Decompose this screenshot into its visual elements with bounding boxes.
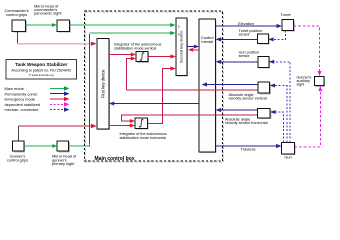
svg-text:sensor: sensor	[239, 33, 251, 37]
wire blue dashed gun to absolute vertical sensor	[270, 84, 287, 143]
wire crimson gunner emergency to first key device	[18, 124, 97, 129]
svg-text:sight: sight	[297, 83, 305, 87]
legend row main mode	[5, 86, 70, 91]
svg-text:sensor: sensor	[239, 54, 251, 58]
label mirror head of gunners primary sight	[52, 154, 77, 167]
absolute angle velocity sensor horizontal box	[258, 109, 272, 120]
commanders control grips box	[12, 20, 27, 33]
svg-text:According to patent no. RU 252: According to patent no. RU 2524042	[11, 69, 71, 73]
gunners control grips box	[13, 141, 25, 153]
label turret position sensor	[239, 29, 262, 37]
first key device U1	[97, 39, 110, 131]
gunners mirror head box	[57, 141, 70, 153]
svg-text:Turret: Turret	[280, 12, 291, 17]
legend row dependent stabilized	[5, 102, 70, 107]
svg-text:velocity sensor vertical: velocity sensor vertical	[229, 96, 267, 100]
svg-text:First key device: First key device	[100, 69, 105, 98]
integrator U5 horizontal	[135, 118, 149, 130]
svg-text:control grips: control grips	[6, 12, 27, 17]
wire navy control box to first key device	[109, 102, 199, 106]
wire crimson first key to integrator horizontal pin2	[109, 124, 135, 128]
wire navy turret position sensor to control box	[216, 37, 258, 41]
control box U3	[199, 19, 217, 153]
label gunners auxiliary sight	[297, 76, 312, 87]
svg-text:mechan. connected: mechan. connected	[5, 107, 39, 112]
turret position sensor box	[258, 34, 270, 45]
wire green commander mirror head to second key device pin 1	[70, 23, 176, 27]
svg-text:panoramic sight: panoramic sight	[34, 11, 62, 16]
wire blue dashed turret to turret position sensor	[268, 31, 285, 42]
label commanders control grips	[4, 8, 28, 17]
wire pink commander emergency to first key device	[18, 42, 97, 46]
svg-text:stabilization mode vertical: stabilization mode vertical	[114, 46, 156, 50]
wire crimson absolute horizontal sensor to integrator horizontal pin1	[122, 115, 258, 123]
wire gunner grips rise (mechanical)	[17, 126, 19, 141]
legend row permanently const	[5, 91, 70, 96]
wire crimson integrator horizontal output to second key device	[148, 66, 176, 123]
svg-text:primary sight: primary sight	[52, 161, 75, 166]
svg-text:2: 2	[178, 32, 180, 36]
gun box	[282, 142, 296, 155]
svg-text:Permanently const.: Permanently const.	[5, 91, 38, 96]
svg-text:Elevation: Elevation	[238, 21, 254, 26]
main control box dashed border	[85, 11, 224, 162]
svg-text:mental: mental	[201, 39, 213, 44]
label mirror head of commanders panoramic sight	[34, 3, 62, 15]
svg-text:Traverse: Traverse	[241, 147, 256, 152]
svg-text:1: 1	[178, 24, 180, 28]
turret box	[282, 19, 295, 31]
wire navy absolute horizontal sensor to control box	[216, 108, 258, 112]
label integrator autonomous stabilization mode horizontal	[120, 132, 168, 140]
svg-text:Main control box: Main control box	[95, 156, 135, 162]
wire blue dashed gun to absolute horizontal sensor	[270, 110, 283, 142]
label absolute angle velocity sensor horizontal	[225, 117, 268, 124]
svg-text:© www.InventA.org: © www.InventA.org	[29, 73, 54, 77]
wire green gunner mirror head to second key device pin 2	[69, 31, 176, 147]
svg-text:control grips: control grips	[7, 157, 28, 162]
label absolute angle velocity sensor vertical	[229, 93, 267, 100]
svg-text:stabilization mode horizontal: stabilization mode horizontal	[120, 136, 167, 140]
label gunners control grips	[7, 154, 28, 163]
wire magenta dashed gun to gunners auxiliary sight	[295, 86, 323, 147]
wire navy absolute vertical sensor to control box	[202, 82, 259, 86]
integrator U4 vertical	[136, 52, 149, 63]
absolute angle velocity sensor vertical box	[258, 82, 271, 95]
pin 2 second key device	[178, 32, 180, 36]
label gun	[284, 155, 291, 160]
svg-text:Main mode: Main mode	[5, 86, 24, 91]
wire crimson riser sensor-vertical to integrator vertical pin2	[127, 57, 137, 91]
wire crimson first key to integrator vertical pin1	[109, 53, 136, 57]
label turret	[280, 12, 291, 17]
svg-text:Tank Weapon Stabilizer: Tank Weapon Stabilizer	[15, 62, 67, 67]
wire commander grips drop (mechanical)	[17, 31, 19, 43]
wire navy traverse control box to gun	[216, 144, 282, 152]
wire green commander grips to mirror head	[26, 23, 57, 27]
wire crimson integrator vertical output to second key device	[148, 54, 176, 58]
svg-text:dependent stabilized: dependent stabilized	[5, 102, 41, 107]
svg-text:Gun: Gun	[284, 155, 291, 160]
title box	[6, 60, 77, 80]
wire navy gun position sensor to control box	[216, 60, 258, 64]
gun position sensor box	[258, 56, 270, 68]
label gun position sensor	[239, 51, 260, 59]
svg-text:Emergency mode: Emergency mode	[5, 97, 36, 102]
wire magenta dashed turret to gunners auxiliary sight	[294, 26, 322, 76]
gunners auxiliary sight box	[314, 76, 325, 87]
second key device U2	[176, 18, 188, 77]
label integrator autonomous stabilization mode vertical	[114, 43, 162, 51]
wire crimson control box to second key device	[188, 48, 199, 52]
wire crimson absolute vertical sensor line	[127, 89, 259, 91]
label Main control box	[95, 156, 135, 162]
svg-text:velocity sensor horizontal: velocity sensor horizontal	[225, 121, 268, 125]
wire blue dashed gun to gun position sensor	[269, 60, 290, 143]
legend row emergency mode	[5, 97, 70, 102]
wire navy second key device to control box	[187, 45, 199, 49]
mirror head commanders box	[57, 20, 71, 33]
wire green gunner grips to mirror head	[24, 144, 57, 148]
pin 1 second key device	[178, 24, 180, 28]
legend row mechan connected	[5, 107, 70, 112]
wire navy elevation control box to turret	[216, 21, 283, 28]
